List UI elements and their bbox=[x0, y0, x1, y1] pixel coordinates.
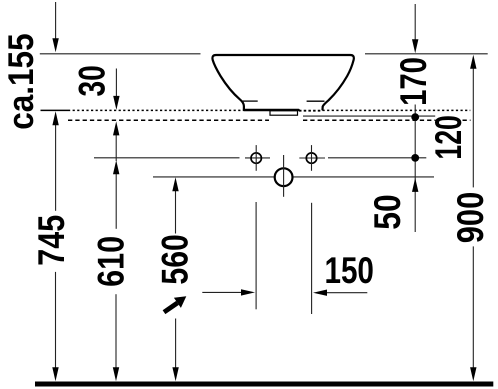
svg-text:120: 120 bbox=[427, 115, 469, 159]
floor line bbox=[35, 382, 493, 387]
svg-text:560: 560 bbox=[154, 234, 196, 284]
svg-text:50: 50 bbox=[366, 194, 408, 230]
svg-text:170: 170 bbox=[392, 57, 434, 106]
faucet hole centre line A bbox=[94, 157, 426, 159]
dim line ca.155/745 at x=55.5 bbox=[55, 2, 57, 370]
bold diagonal arrow bbox=[164, 296, 186, 312]
drain circle bbox=[275, 168, 293, 186]
drain tailpiece bbox=[270, 111, 298, 115]
svg-text:610: 610 bbox=[90, 236, 132, 287]
faucet hole circle 2 bbox=[306, 153, 316, 163]
countertop top line (solid then dotted) bbox=[41, 109, 471, 111]
svg-text:30: 30 bbox=[71, 65, 113, 96]
dim line 900 at x=473.3 bbox=[472, 68, 474, 370]
washbasin bowl bbox=[212, 55, 353, 110]
dim line 30/610 at x=116.2 bbox=[115, 69, 117, 371]
extension lines below faucet holes bbox=[255, 202, 257, 309]
faucet hole circle 1 bbox=[251, 153, 261, 163]
150 dimension arrows bbox=[202, 291, 367, 293]
svg-text:150: 150 bbox=[324, 249, 374, 291]
dim line 560 at x=175.5 bbox=[175, 190, 177, 370]
drain centre line B bbox=[153, 176, 434, 178]
countertop bottom dashed line bbox=[68, 119, 471, 121]
svg-text:ca.155: ca.155 bbox=[1, 33, 41, 129]
svg-text:900: 900 bbox=[449, 192, 491, 244]
tailpiece bottom reference line bbox=[303, 115, 435, 117]
bowl inner bottom edges bbox=[243, 100, 325, 102]
dim line 170/120/50 at x=415.2 bbox=[414, 4, 416, 232]
top reference line (rim level) bbox=[40, 53, 488, 55]
svg-text:745: 745 bbox=[30, 215, 72, 266]
